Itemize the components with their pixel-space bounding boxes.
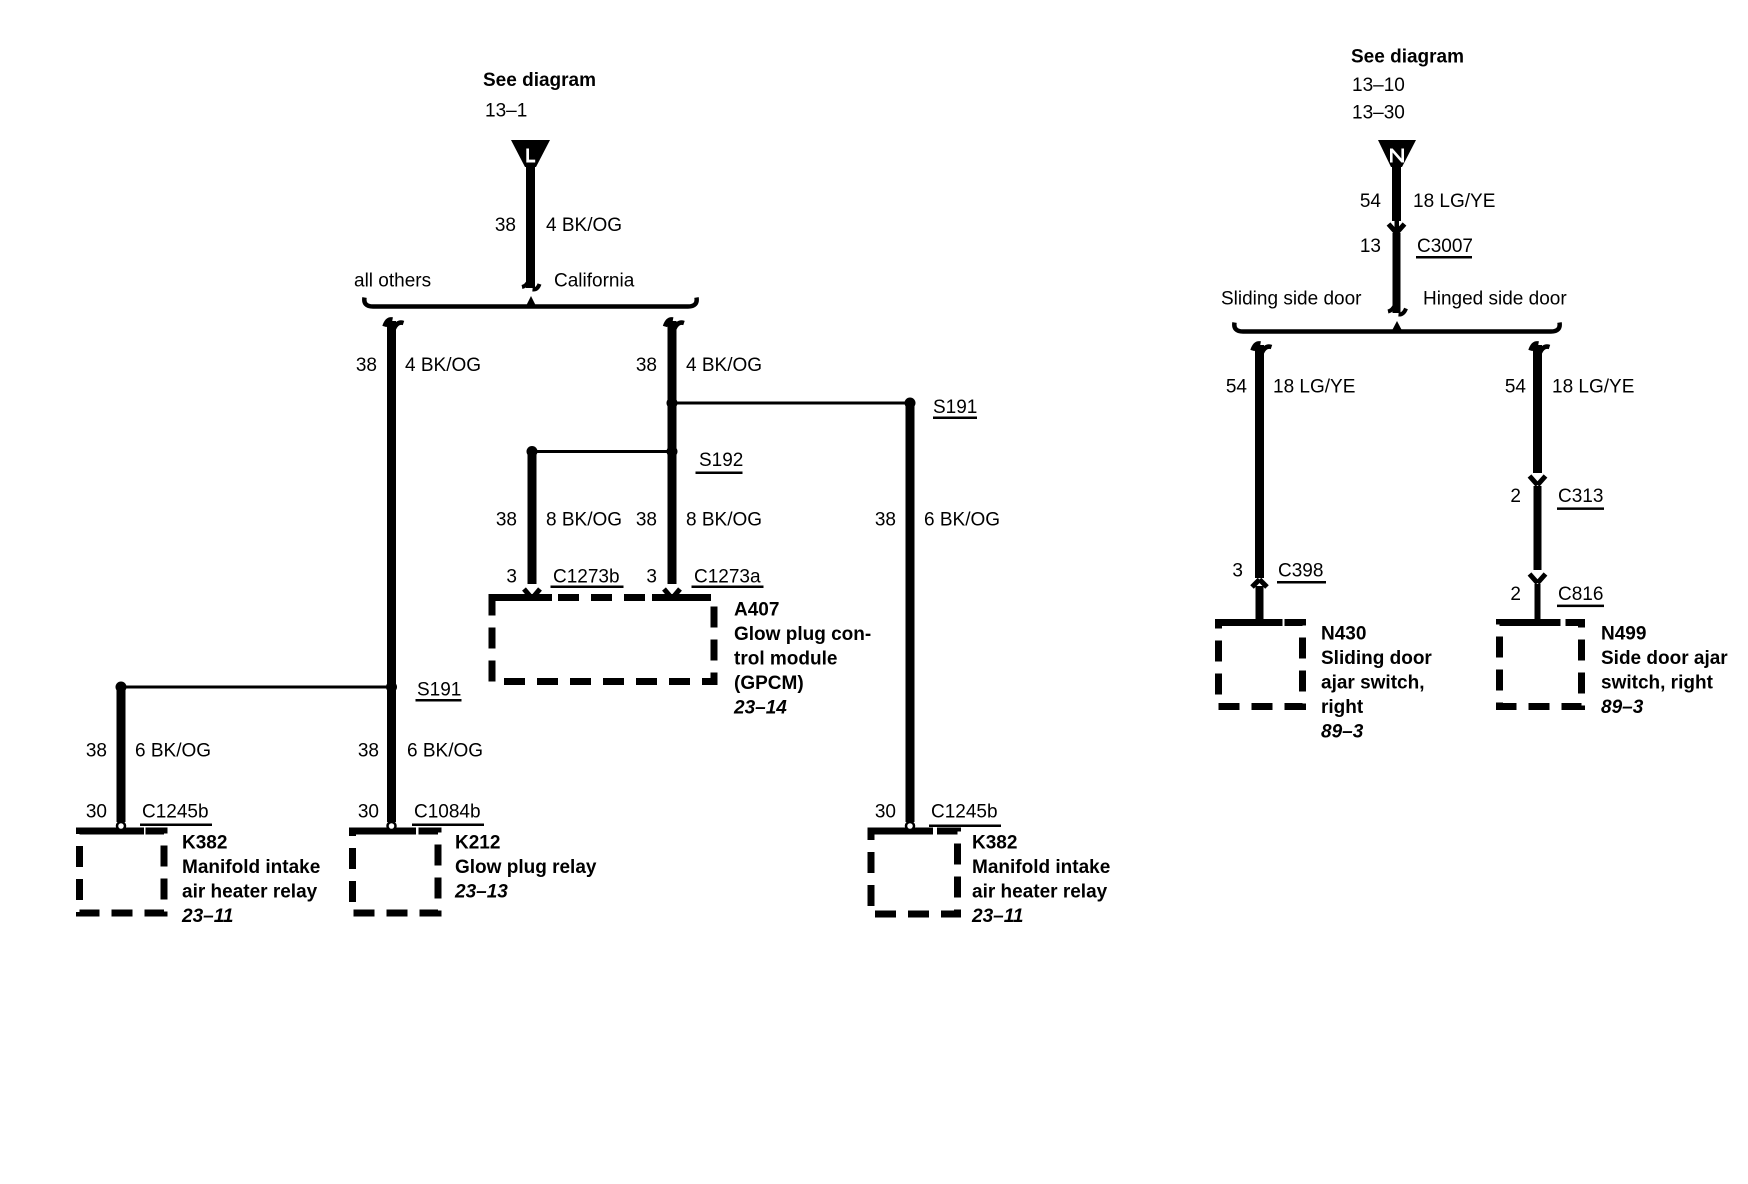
- svg-text:air heater relay: air heater relay: [182, 881, 318, 902]
- svg-text:18 LG/YE: 18 LG/YE: [1552, 376, 1634, 397]
- svg-text:C1245b: C1245b: [931, 801, 998, 822]
- svg-text:38: 38: [636, 355, 657, 376]
- svg-text:13–30: 13–30: [1352, 103, 1405, 124]
- svg-text:2: 2: [1510, 486, 1521, 507]
- svg-text:3: 3: [506, 566, 517, 587]
- svg-text:18 LG/YE: 18 LG/YE: [1273, 376, 1355, 397]
- svg-text:3: 3: [1232, 561, 1243, 582]
- svg-text:air heater relay: air heater relay: [972, 881, 1108, 902]
- svg-text:13–10: 13–10: [1352, 75, 1405, 96]
- svg-text:6 BK/OG: 6 BK/OG: [135, 740, 211, 761]
- svg-text:4 BK/OG: 4 BK/OG: [405, 355, 481, 376]
- svg-text:38: 38: [86, 740, 107, 761]
- svg-text:6 BK/OG: 6 BK/OG: [924, 509, 1000, 530]
- svg-text:89–3: 89–3: [1601, 697, 1644, 718]
- svg-text:C1273b: C1273b: [553, 566, 620, 587]
- svg-text:4 BK/OG: 4 BK/OG: [546, 215, 622, 236]
- svg-text:Manifold intake: Manifold intake: [182, 857, 320, 878]
- svg-text:all others: all others: [354, 271, 431, 292]
- svg-text:ajar switch,: ajar switch,: [1321, 672, 1425, 693]
- svg-text:See diagram: See diagram: [483, 70, 596, 91]
- svg-text:30: 30: [358, 801, 379, 822]
- svg-text:54: 54: [1226, 376, 1248, 397]
- svg-text:N430: N430: [1321, 623, 1366, 644]
- svg-text:K382: K382: [972, 832, 1017, 853]
- svg-text:California: California: [554, 271, 635, 292]
- svg-text:30: 30: [86, 801, 107, 822]
- svg-text:See diagram: See diagram: [1351, 46, 1464, 67]
- svg-text:89–3: 89–3: [1321, 722, 1364, 743]
- svg-text:54: 54: [1505, 376, 1527, 397]
- svg-text:8 BK/OG: 8 BK/OG: [686, 509, 762, 530]
- svg-text:Manifold intake: Manifold intake: [972, 857, 1110, 878]
- svg-text:C1245b: C1245b: [142, 801, 209, 822]
- svg-text:switch, right: switch, right: [1601, 672, 1714, 693]
- svg-text:38: 38: [496, 509, 517, 530]
- svg-text:K212: K212: [455, 832, 500, 853]
- svg-text:C816: C816: [1558, 584, 1603, 605]
- svg-text:13: 13: [1360, 236, 1381, 257]
- svg-text:Side door ajar: Side door ajar: [1601, 648, 1728, 669]
- svg-text:S191: S191: [933, 397, 977, 418]
- svg-text:23–11: 23–11: [971, 906, 1023, 927]
- svg-text:trol module: trol module: [734, 648, 837, 669]
- svg-text:Glow plug relay: Glow plug relay: [455, 857, 597, 878]
- svg-text:38: 38: [495, 215, 516, 236]
- svg-text:23–14: 23–14: [733, 698, 787, 719]
- svg-text:C3007: C3007: [1417, 236, 1473, 257]
- svg-text:38: 38: [358, 740, 379, 761]
- svg-text:C398: C398: [1278, 561, 1323, 582]
- svg-text:6 BK/OG: 6 BK/OG: [407, 740, 483, 761]
- svg-text:K382: K382: [182, 832, 227, 853]
- svg-text:right: right: [1321, 697, 1364, 718]
- svg-text:2: 2: [1510, 584, 1521, 605]
- svg-text:18 LG/YE: 18 LG/YE: [1413, 191, 1495, 212]
- svg-text:4 BK/OG: 4 BK/OG: [686, 355, 762, 376]
- svg-text:Hinged side door: Hinged side door: [1423, 289, 1567, 310]
- svg-text:S192: S192: [699, 450, 743, 471]
- svg-text:30: 30: [875, 801, 896, 822]
- svg-text:C313: C313: [1558, 486, 1603, 507]
- svg-text:A407: A407: [734, 599, 779, 620]
- svg-text:8 BK/OG: 8 BK/OG: [546, 509, 622, 530]
- svg-text:23–11: 23–11: [181, 906, 233, 927]
- svg-text:Sliding side door: Sliding side door: [1221, 289, 1362, 310]
- svg-text:C1273a: C1273a: [694, 566, 761, 587]
- svg-text:23–13: 23–13: [454, 881, 508, 902]
- svg-text:38: 38: [356, 355, 377, 376]
- svg-text:3: 3: [646, 566, 657, 587]
- svg-text:54: 54: [1360, 191, 1382, 212]
- svg-text:38: 38: [875, 509, 896, 530]
- svg-text:N499: N499: [1601, 623, 1646, 644]
- svg-text:Sliding door: Sliding door: [1321, 648, 1432, 669]
- svg-text:38: 38: [636, 509, 657, 530]
- svg-text:(GPCM): (GPCM): [734, 673, 804, 694]
- svg-text:C1084b: C1084b: [414, 801, 481, 822]
- svg-text:13–1: 13–1: [485, 101, 527, 122]
- svg-text:S191: S191: [417, 679, 461, 700]
- svg-text:Glow plug con-: Glow plug con-: [734, 624, 871, 645]
